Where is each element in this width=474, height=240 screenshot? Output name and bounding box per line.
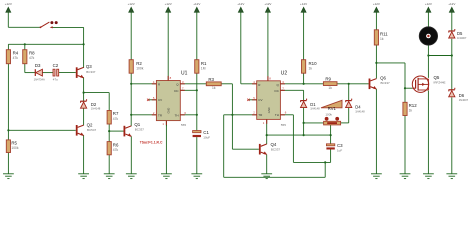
wire gate column — [404, 63, 406, 102]
wire R11 to Q6 collector — [375, 45, 377, 79]
wire D4 tap drop — [348, 84, 350, 101]
wire output column to Q4 base — [232, 148, 259, 150]
switch SW1 — [40, 21, 58, 28]
wire Q4 emitter to ground — [266, 155, 268, 174]
wire loop bottom — [224, 176, 326, 178]
wire discharge row — [267, 134, 331, 136]
wire U2 TH pin wire — [280, 114, 293, 116]
wire motor to Q5 drain — [427, 45, 429, 78]
wire D4 to RV1 right — [348, 108, 350, 123]
svg-text:+12V: +12V — [425, 2, 432, 6]
resistor R3 1k — [206, 77, 221, 90]
junction R11/Q6 collector — [375, 62, 377, 64]
wire +12V to U1 VCC — [167, 14, 169, 81]
diode D1 1N4148 — [301, 99, 321, 111]
svg-text:1k: 1k — [380, 37, 384, 41]
wire Q6 collector to gate column — [376, 62, 405, 64]
transistor Q2 BC547 — [76, 122, 97, 136]
wire +12V to U2 reset node — [240, 14, 242, 84]
wire +12V to motor — [427, 14, 429, 27]
svg-text:47k: 47k — [113, 117, 119, 121]
wire D2 to Q2 collector — [83, 108, 85, 125]
wire C2 to Q3 base — [59, 72, 76, 74]
ground (U1 GND) — [161, 174, 172, 179]
power +12V (R11) — [373, 2, 380, 14]
ground (Q1 emitter) — [126, 174, 137, 179]
potentiometer RV1 100k — [321, 100, 342, 125]
svg-text:R6: R6 — [113, 142, 119, 147]
svg-text:100k: 100k — [136, 66, 144, 70]
junction rail/R8 — [24, 43, 26, 45]
wire +12V feed to switch — [8, 26, 40, 28]
wire node to Q1 collector — [130, 115, 132, 126]
svg-text:D5: D5 — [457, 31, 463, 36]
svg-text:R7: R7 — [113, 111, 119, 116]
resistor R10 1k — [302, 60, 318, 73]
capacitor C1 10uF — [193, 130, 211, 139]
wire node to U1 TR pin — [131, 114, 156, 116]
wire R1 column to C1 — [196, 73, 198, 130]
svg-text:C2: C2 — [53, 63, 59, 68]
svg-text:BC337: BC337 — [271, 148, 281, 152]
junction TR loop/TH leg — [324, 161, 326, 163]
junction R7/R6/Q1 base — [108, 130, 110, 132]
svg-text:R9: R9 — [325, 76, 331, 81]
wire loop right leg — [324, 162, 326, 177]
ground (Q6 emitter) — [371, 174, 382, 179]
wire +12V to R10 — [303, 14, 305, 60]
wire gate wire to Q5 — [405, 87, 412, 89]
svg-text:+12V: +12V — [165, 2, 172, 6]
wire R7 top riser — [108, 93, 110, 111]
wire node to U1 reset pin — [131, 83, 156, 85]
svg-text:+12V: +12V — [237, 2, 244, 6]
power +12V (U2 VCC) — [264, 2, 271, 14]
diode D5 1N4007 — [449, 29, 467, 40]
svg-text:GND: GND — [267, 107, 271, 113]
ground (D6) — [446, 174, 457, 179]
power +12V (switch feed) — [5, 2, 12, 14]
wire D1 to RV1 left — [304, 122, 324, 124]
svg-text:CV: CV — [258, 98, 262, 102]
wire R5 to ground — [7, 153, 9, 174]
svg-text:47u: 47u — [53, 77, 58, 81]
svg-text:100k: 100k — [325, 113, 332, 117]
svg-text:CV: CV — [158, 98, 162, 102]
junction R5/Q2 base — [7, 129, 9, 131]
op-amp U1 (555 timer) — [147, 71, 188, 128]
wire output column — [231, 84, 233, 149]
svg-text:Q4: Q4 — [271, 142, 277, 147]
junction rail/Q3 collector — [83, 43, 85, 45]
svg-text:U2: U2 — [281, 71, 288, 77]
svg-text:D2: D2 — [91, 102, 97, 107]
svg-text:R8: R8 — [29, 51, 35, 56]
diode D2 1N4148 — [81, 99, 101, 110]
resistor R4 47k — [6, 50, 18, 64]
power +12V (R2) — [128, 2, 135, 14]
diode D6 1N4007 — [449, 88, 469, 102]
transistor Q4 BC337 — [259, 142, 281, 155]
wire +12V to D5 — [451, 14, 453, 32]
junction gate/R12 — [404, 87, 406, 89]
wire R9 to Q6 base — [337, 83, 369, 85]
power +12V (motor) — [425, 2, 432, 14]
wire U2 DC pin wire — [280, 89, 303, 91]
svg-text:1N4148: 1N4148 — [310, 107, 320, 111]
capacitor C2 47u — [53, 63, 59, 81]
wire U1 DC pin to R1 column — [180, 89, 197, 91]
ground (R5) — [3, 174, 14, 179]
transistor Q1 BC337 — [124, 122, 145, 137]
svg-text:BC337: BC337 — [86, 70, 96, 74]
wire C3 top riser — [330, 135, 332, 144]
svg-text:BC547: BC547 — [87, 128, 97, 132]
svg-text:U1: U1 — [181, 71, 188, 77]
op-amp U2 (555 timer) — [247, 71, 287, 128]
resistor R12 1k — [403, 102, 417, 115]
diode D3 1N4734A — [34, 63, 45, 81]
svg-text:R1: R1 — [201, 61, 207, 66]
wire D5 to D6 — [451, 39, 453, 90]
transistor Q5 IRFZ44E — [412, 75, 445, 92]
svg-text:R10: R10 — [309, 61, 318, 66]
svg-text:1k: 1k — [409, 109, 413, 113]
wire node to Q1 base — [109, 130, 123, 132]
svg-text:TH: TH — [175, 113, 179, 117]
transistor Q3 BC337 — [76, 64, 96, 78]
wire D1 to discharge node — [303, 108, 305, 135]
wire R8 to D3 row — [24, 64, 26, 73]
svg-text:R2: R2 — [136, 61, 142, 66]
wire Q2 base wire — [8, 129, 75, 131]
svg-text:1k: 1k — [212, 86, 216, 90]
wire R8 to D3 — [25, 72, 36, 74]
svg-text:+12V: +12V — [264, 2, 271, 6]
ground (Q5 source) — [423, 174, 434, 179]
svg-text:+12V: +12V — [373, 2, 380, 6]
svg-text:R12: R12 — [409, 103, 418, 108]
svg-text:47k: 47k — [13, 56, 19, 60]
svg-text:555: 555 — [281, 123, 286, 127]
wire Q2 emitter to ground — [83, 135, 85, 174]
resistor R1 1M — [195, 60, 207, 73]
diode D4 1N4148 — [346, 99, 366, 114]
svg-text:1M: 1M — [201, 66, 206, 70]
svg-text:1N4734A: 1N4734A — [34, 77, 45, 81]
svg-text:R4: R4 — [13, 51, 19, 56]
svg-text:R3: R3 — [208, 77, 214, 82]
svg-text:+12V: +12V — [128, 2, 135, 6]
junction D1/RV1 left — [303, 122, 305, 124]
wire emitter node to R7 — [84, 92, 110, 94]
svg-text:Q2: Q2 — [87, 122, 93, 127]
wire loop left leg — [223, 115, 225, 178]
wire C3 bottom riser — [330, 150, 332, 163]
junction R2/U1 reset — [130, 83, 132, 85]
wire R6 to ground — [108, 155, 110, 174]
svg-text:555: 555 — [181, 123, 186, 127]
svg-text:R5: R5 — [11, 140, 17, 145]
annotation TSact — [140, 141, 163, 145]
wire supply rail R4/R8 — [8, 43, 83, 45]
wire R3 to output column — [221, 83, 232, 85]
wire switch to Q3 collector column — [52, 26, 83, 28]
resistor R7 47k — [107, 111, 119, 125]
svg-text:D6: D6 — [459, 93, 465, 98]
svg-text:C1: C1 — [203, 130, 209, 135]
svg-text:D3: D3 — [35, 63, 41, 68]
svg-text:C3: C3 — [337, 143, 343, 148]
resistor R6 47k — [107, 142, 119, 155]
wire RV1 right lead — [341, 122, 349, 124]
junction R1/TH — [196, 114, 198, 116]
svg-text:+12V: +12V — [300, 2, 307, 6]
svg-text:47k: 47k — [113, 148, 119, 152]
power +12V (U2 reset) — [237, 2, 244, 14]
wire Q1 emitter to ground — [130, 136, 132, 174]
wire D6 to ground — [451, 97, 453, 173]
wire +12V to R1 — [196, 14, 198, 60]
wire rail to R4 — [7, 44, 9, 49]
wire +12V to R11 — [375, 14, 377, 30]
svg-text:Q6: Q6 — [380, 75, 386, 80]
power +12V (U1 VCC) — [165, 2, 172, 14]
resistor R5 100k — [6, 140, 19, 153]
junction R10/output2 — [303, 83, 305, 85]
resistor R9 1k — [323, 76, 337, 90]
power +12V (R1) — [193, 2, 200, 14]
transistor Q6 BC337 — [369, 75, 390, 89]
wire R2 column — [130, 73, 132, 115]
wire R12 to ground — [404, 116, 406, 174]
wire U2 output to R9 — [280, 83, 323, 85]
wire TH leg down — [292, 115, 294, 163]
wire DC to D1 — [303, 90, 305, 100]
junction discharge node — [266, 134, 268, 136]
junction output1/TR2 — [231, 114, 233, 116]
svg-text:IRFZ44E: IRFZ44E — [434, 80, 446, 84]
svg-text:+12V: +12V — [5, 2, 12, 6]
wire R4 bottom to Q2 base node — [7, 64, 9, 140]
svg-text:+12V: +12V — [193, 2, 200, 6]
svg-text:1N4007: 1N4007 — [457, 36, 467, 40]
svg-text:D4: D4 — [355, 105, 361, 110]
capacitor C3 1uF — [326, 143, 343, 152]
wire Q5 source to ground — [427, 91, 429, 174]
wire U1 output to R3 — [180, 83, 206, 85]
svg-text:1k: 1k — [328, 86, 332, 90]
power +12V (D5) — [448, 2, 455, 14]
junction D5/D6 node — [451, 54, 453, 56]
ground (Q4 emitter) — [261, 174, 272, 179]
svg-text:D1: D1 — [310, 102, 316, 107]
wire U2 GND column to Q4 collector — [266, 119, 268, 144]
wire Q3 collector column — [83, 27, 85, 68]
svg-text:1N4007: 1N4007 — [459, 98, 469, 102]
wire drain node to zener column — [428, 55, 451, 57]
resistor R11 1k — [374, 30, 388, 45]
ground (Q2 emitter) — [78, 174, 89, 179]
wire TR wire of U2 — [224, 114, 257, 116]
junction R1/DC — [196, 89, 198, 91]
svg-text:1N4148: 1N4148 — [91, 107, 101, 111]
svg-text:R11: R11 — [380, 31, 388, 36]
svg-text:TSact=1.1.R.C: TSact=1.1.R.C — [140, 141, 163, 145]
motor M1 — [419, 27, 437, 45]
wire D3 to C2 — [42, 72, 53, 74]
svg-text:Q3: Q3 — [86, 64, 92, 69]
wire U1 TH pin to R1 column — [180, 114, 197, 116]
wire node to R6 — [108, 131, 110, 142]
svg-text:1k: 1k — [309, 66, 313, 70]
junction motor/drain node — [427, 54, 429, 56]
wire C1 to ground — [196, 137, 198, 174]
wire U1 GND to ground — [165, 121, 167, 174]
junction D4 tap — [348, 83, 350, 85]
svg-text:BC337: BC337 — [135, 128, 145, 132]
svg-text:Q1: Q1 — [134, 122, 140, 127]
ground (C1) — [191, 174, 202, 179]
resistor R8 47k — [23, 50, 35, 64]
svg-text:1N4148: 1N4148 — [355, 109, 365, 113]
svg-text:47k: 47k — [29, 56, 35, 60]
svg-text:BC337: BC337 — [381, 81, 391, 85]
svg-text:+12V: +12V — [448, 2, 455, 6]
junction D1/discharge row — [303, 134, 305, 136]
wire rail to R8 — [24, 44, 26, 49]
junction wiper/C3 node — [330, 134, 332, 136]
resistor R2 100k — [129, 60, 144, 73]
svg-text:RV1: RV1 — [328, 106, 337, 111]
ground (R6) — [104, 174, 115, 179]
svg-text:1uF: 1uF — [337, 148, 342, 152]
wire +12V to U2 VCC — [267, 14, 269, 81]
svg-text:10uF: 10uF — [203, 136, 210, 140]
power +12V (R10) — [300, 2, 307, 14]
junction TR node/Q1 collector — [130, 114, 132, 116]
wire node to D2 — [83, 93, 85, 102]
wire R10 to output row — [303, 73, 305, 84]
wire Q3 emitter drop — [83, 77, 85, 92]
wire TH leg to C3 — [293, 161, 330, 163]
wire RV1 wiper drop — [330, 125, 332, 135]
wire R7 to base node — [108, 124, 110, 131]
junction Q3 emitter node — [83, 92, 85, 94]
svg-text:GND: GND — [167, 108, 171, 114]
ground (R12) — [400, 174, 411, 179]
wire +12V to R2 — [130, 14, 132, 60]
wire Q6 emitter to ground — [375, 89, 377, 174]
wire +12V feed drop — [7, 14, 9, 28]
wire node to U2 reset pin — [241, 83, 257, 85]
svg-text:100k: 100k — [11, 146, 19, 150]
svg-text:TH: TH — [275, 113, 279, 117]
